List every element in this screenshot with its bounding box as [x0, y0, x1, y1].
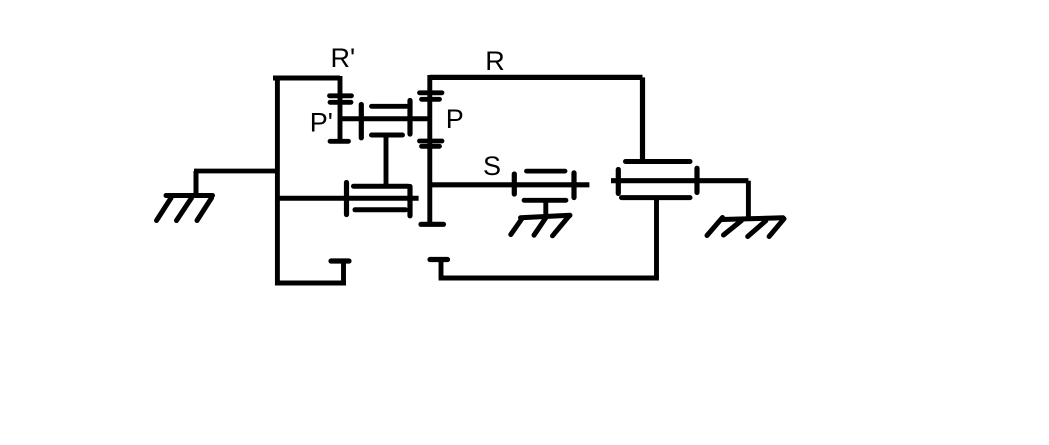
- planet idler gear bars: [372, 106, 407, 135]
- bottom wire to carrier: [430, 260, 659, 279]
- planet carrier shaft P'-P: [340, 116, 430, 121]
- svg-text:R: R: [485, 46, 505, 76]
- output gear bottom bar: [622, 195, 691, 200]
- output gear top bar: [626, 159, 691, 164]
- sun gear bars: [524, 171, 566, 200]
- planet idler gear ticks: [361, 101, 410, 138]
- wire ground to carrier frame: [194, 169, 277, 174]
- sun ground stub: [543, 200, 548, 216]
- carrier frame (left bracket): [273, 76, 349, 286]
- svg-text:P: P: [446, 104, 464, 134]
- planet P shaft: [421, 75, 444, 224]
- planet P mesh bars: [420, 93, 443, 147]
- output gear ticks: [618, 168, 697, 193]
- sun shaft S: [430, 182, 590, 187]
- ring gear R' shaft: [338, 76, 343, 142]
- wire output shaft to right ground: [746, 181, 751, 218]
- carrier gear ticks: [347, 183, 411, 216]
- carrier lower shaft: [277, 196, 419, 201]
- output carrier stub: [654, 198, 659, 278]
- svg-text:P': P': [310, 108, 333, 138]
- ground (sun): [511, 215, 570, 236]
- ground (left frame anchor): [157, 171, 213, 221]
- output shaft: [611, 178, 748, 183]
- sun gear ticks: [514, 173, 574, 198]
- svg-text:R': R': [331, 43, 356, 73]
- carrier gear bars: [354, 186, 409, 210]
- ring gear R' mesh bars: [330, 96, 352, 142]
- link idler gear to lower gear: [384, 135, 389, 188]
- ground (right): [707, 218, 784, 237]
- svg-text:S: S: [483, 151, 501, 181]
- ring link R wire: [430, 77, 643, 161]
